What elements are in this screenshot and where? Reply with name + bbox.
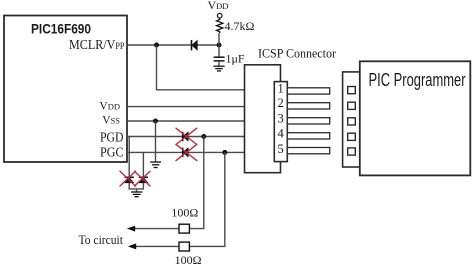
- svg-text:ICSP Connector: ICSP Connector: [258, 47, 337, 61]
- resistor R1 4.7k zigzag: [217, 18, 223, 33]
- wire PGD pin to ICSP: [127, 136, 245, 138]
- wire PGC pin to ICSP: [127, 151, 245, 153]
- diode D3 on PGC line (crossed out): [183, 148, 189, 157]
- svg-text:PGC: PGC: [100, 145, 124, 160]
- wire PGC branch down to bottom diode pair: [142, 152, 144, 177]
- svg-text:5: 5: [278, 142, 284, 156]
- wire from resistor R2 to arrow: [133, 228, 179, 230]
- node junction dot on VSS wire: [153, 119, 158, 124]
- svg-text:PGD: PGD: [100, 130, 124, 145]
- PIC programmer body: [360, 61, 471, 175]
- svg-text:100Ω: 100Ω: [171, 206, 198, 220]
- socket hole 2: [348, 102, 356, 109]
- wire joining bottom diodes to ground: [129, 183, 143, 189]
- socket hole 5: [348, 148, 356, 155]
- wire diode anode to node A: [197, 44, 219, 46]
- red X over diode D5: [135, 171, 151, 186]
- IC U1 PIC16F690 body: [4, 16, 127, 163]
- node A junction dot (R/C/diode): [217, 43, 222, 48]
- resistor R3 100 ohm box: [179, 242, 189, 251]
- ICSP pin 1 blade: [287, 88, 329, 94]
- node junction dot on PGD wire: [201, 134, 206, 139]
- ground under capacitor: [213, 66, 224, 71]
- svg-text:3: 3: [278, 111, 284, 125]
- diode D5 to ground (crossed out): [139, 177, 148, 183]
- programmer socket strip: [343, 72, 360, 167]
- ICSP pin 4 blade: [287, 133, 329, 139]
- wire MCLR branch down then right into ICSP pin1: [157, 45, 245, 90]
- wire PGD junction down to resistor R2 line: [190, 137, 204, 229]
- wire VDD pin to ICSP: [127, 106, 245, 108]
- svg-text:1μF: 1μF: [226, 52, 245, 66]
- socket hole 1: [348, 87, 356, 94]
- ground under bottom diodes: [131, 192, 142, 197]
- svg-text:PIC Programmer: PIC Programmer: [369, 69, 466, 90]
- node junction dot on PGC wire: [222, 150, 227, 155]
- ICSP pin 2 blade: [287, 103, 329, 109]
- svg-text:PIC16F690: PIC16F690: [31, 21, 91, 37]
- wire node A down to capacitor: [218, 45, 220, 57]
- socket hole 4: [348, 133, 356, 140]
- svg-text:1: 1: [278, 81, 284, 95]
- socket hole 3: [348, 118, 356, 125]
- wire from resistor R3 to arrow: [134, 245, 179, 247]
- svg-text:VDD: VDD: [99, 101, 120, 113]
- red X over diode D2: [176, 128, 197, 144]
- svg-text:2: 2: [278, 96, 284, 110]
- ICSP pin 3 blade: [287, 118, 329, 124]
- node junction dot on MCLR wire: [154, 43, 159, 48]
- power VDD terminal circle: [217, 13, 222, 18]
- wire capacitor to ground: [218, 61, 220, 66]
- wire VSS pin to ICSP: [127, 120, 245, 122]
- wire MCLR from chip to diode cathode: [127, 44, 192, 46]
- wire resistor bottom to node A: [218, 33, 220, 45]
- diode D4 to ground (crossed out): [125, 177, 134, 183]
- capacitor C1 1uF plates: [214, 56, 225, 58]
- wire VSS to ground: [155, 121, 157, 162]
- wire PGC junction down to resistor R3 line: [190, 152, 225, 246]
- diode D2 on PGD line (crossed out): [183, 132, 189, 141]
- svg-text:VDD: VDD: [208, 0, 229, 12]
- red X over diode D4: [120, 171, 136, 186]
- wire PGD branch down to bottom diode pair: [128, 137, 130, 178]
- svg-text:To circuit: To circuit: [79, 233, 124, 247]
- arrow to circuit (top): [127, 226, 135, 232]
- svg-text:4: 4: [278, 127, 285, 141]
- red X over diode D3: [176, 144, 197, 160]
- wire ground stem: [136, 189, 138, 192]
- svg-text:VSS: VSS: [102, 115, 120, 127]
- ICSP pin-number strip: [274, 82, 287, 162]
- ICSP pin 5 blade: [287, 148, 329, 154]
- svg-text:4.7kΩ: 4.7kΩ: [225, 19, 255, 33]
- ICSP connector body: [245, 65, 281, 173]
- arrow to circuit (bottom): [128, 243, 136, 249]
- diode D1 on MCLR line (points left): [192, 40, 198, 50]
- svg-text:100Ω: 100Ω: [175, 253, 202, 267]
- ground under VSS: [150, 162, 161, 168]
- resistor R2 100 ohm box: [179, 224, 189, 233]
